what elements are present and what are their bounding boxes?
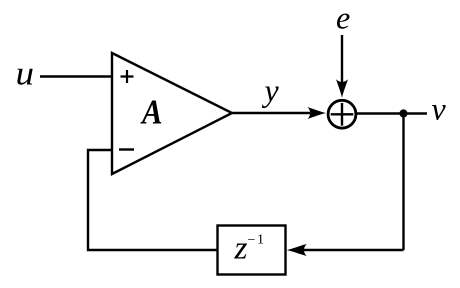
summing junction S1 [328,100,356,128]
svg-text:v: v [432,91,447,127]
svg-text:A: A [140,93,162,132]
wire amplifier output to summing junction [232,112,310,114]
node v junction dot [399,109,407,117]
wire v down to feedback [402,114,404,251]
wire summer to node v [356,112,427,114]
svg-text:z: z [233,231,247,267]
pin + (non-inverting input) [121,70,134,83]
wire feedback left segment to amplifier - input [88,150,218,250]
svg-text:y: y [262,72,280,108]
svg-text:u: u [16,56,35,93]
arrowhead into summer [308,107,327,119]
wire e to summer [341,35,343,82]
svg-text:e: e [336,0,350,36]
arrowhead e into summer [336,79,348,98]
wire feedback right segment [304,249,404,251]
arrowhead into delay block [287,244,307,256]
op-amp U1 triangle A [112,53,232,174]
svg-text:−: − [248,233,256,248]
wire u to amplifier + input [40,75,112,77]
svg-text:1: 1 [257,233,264,248]
plus sign in summer [331,103,354,126]
delay block Z1 [218,226,286,275]
pin - (inverting input) [119,148,134,150]
